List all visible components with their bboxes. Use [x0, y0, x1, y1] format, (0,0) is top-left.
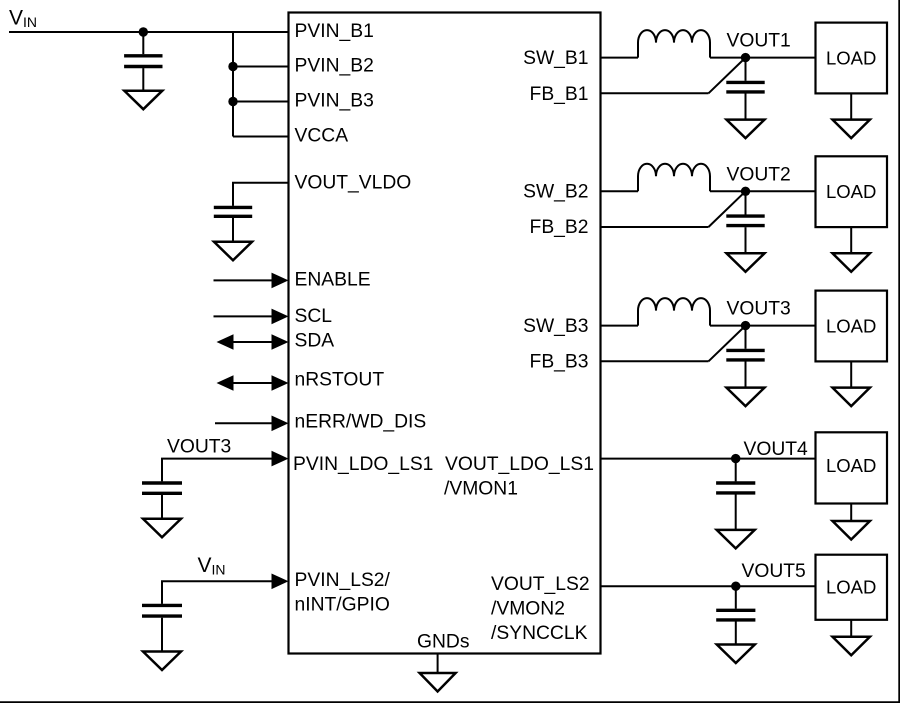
svg-text:VIN: VIN — [198, 554, 226, 578]
svg-text:VOUT3: VOUT3 — [167, 437, 231, 458]
feedback diagonal FB_B2 to VOUT2 — [709, 191, 746, 227]
capacitor C3 on VOUT3 — [142, 483, 182, 519]
svg-text:LOAD: LOAD — [826, 577, 876, 598]
wire PVIN_B3 — [233, 101, 289, 103]
wire SW_B2 — [601, 190, 639, 192]
inductor L1 — [638, 30, 710, 58]
junction PVIN_B2 branch — [228, 62, 237, 71]
junction VOUT3 — [741, 321, 750, 330]
wire FB_B2 — [601, 226, 709, 228]
junction VOUT4 — [731, 454, 740, 463]
svg-text:VOUT4: VOUT4 — [744, 439, 809, 460]
ground (below LOAD4) — [833, 521, 870, 540]
signal arrow nRSTOUT (bidirectional) — [217, 375, 289, 391]
wire GNDs to ground — [437, 654, 439, 674]
capacitor C5 on VOUT4 — [716, 459, 755, 530]
wire VIN branch to PVIN_B2/B3/VCCA — [232, 32, 234, 137]
wire LOAD1 to ground — [850, 93, 852, 119]
junction VIN / input capacitor — [139, 27, 148, 36]
svg-text:VIN: VIN — [9, 7, 37, 30]
junction PVIN_B3 branch — [228, 97, 237, 106]
wire L2 to VOUT2 node — [710, 190, 816, 192]
inductor L2 — [638, 164, 710, 192]
capacitor C6 on VOUT5 — [716, 586, 755, 644]
ground (below LOAD3) — [833, 388, 870, 407]
svg-text:SCL: SCL — [295, 306, 333, 327]
svg-text:/VMON1: /VMON1 — [444, 478, 518, 499]
wire VOUT_LS2 to LOAD5 — [601, 585, 816, 587]
capacitor C4 on PVIN_LS2 input — [142, 605, 182, 651]
wire/arrow VIN into PVIN_LS2 — [162, 574, 289, 604]
svg-text:GNDs: GNDs — [417, 632, 470, 653]
wire LOAD3 to ground — [850, 361, 852, 387]
wire VIN input rail — [9, 31, 289, 33]
capacitor C2 VOUT_VLDO bypass — [214, 207, 252, 241]
load block LOAD2 — [816, 156, 888, 227]
feedback diagonal FB_B1 to VOUT1 — [709, 58, 746, 94]
ground (below LOAD1) — [833, 120, 870, 139]
capacitor C_out1 on VOUT1 — [726, 58, 764, 120]
junction VOUT1 — [741, 53, 750, 62]
wire SW_B3 — [601, 325, 639, 327]
svg-text:LOAD: LOAD — [826, 455, 876, 476]
svg-text:LOAD: LOAD — [826, 47, 876, 68]
svg-text:nERR/WD_DIS: nERR/WD_DIS — [295, 411, 427, 432]
ground (GNDs) — [420, 673, 456, 692]
pin label PVIN_LS2/nINT/GPIO — [295, 570, 391, 616]
svg-text:VOUT1: VOUT1 — [727, 31, 791, 52]
junction VOUT5 — [731, 582, 740, 591]
svg-text:FB_B3: FB_B3 — [530, 352, 589, 373]
signal arrow nERR/WD_DIS (input) — [215, 416, 289, 432]
inductor L3 — [638, 298, 710, 326]
svg-text:SW_B1: SW_B1 — [523, 48, 588, 69]
ground (below C5) — [717, 530, 755, 549]
ground (below C_out3) — [727, 388, 765, 407]
wire LOAD5 to ground — [850, 620, 852, 637]
svg-text:ENABLE: ENABLE — [295, 269, 371, 290]
ground (below C_out1) — [727, 120, 765, 139]
wire VOUT_LDO_LS1 to LOAD4 — [601, 458, 816, 460]
svg-text:SDA: SDA — [295, 331, 335, 352]
wire L1 to VOUT1 node — [710, 57, 816, 59]
wire LOAD4 to ground — [850, 504, 852, 522]
load block LOAD4 — [816, 432, 888, 503]
ground (below C_out2) — [727, 253, 765, 271]
capacitor C1 VIN input bypass — [124, 32, 162, 91]
ground (below C1) — [124, 91, 162, 110]
svg-text:VCCA: VCCA — [295, 125, 349, 146]
signal arrow SCL (input) — [214, 309, 289, 325]
wire FB_B3 — [601, 360, 709, 362]
svg-text:PVIN_B3: PVIN_B3 — [295, 91, 374, 112]
svg-text:SW_B3: SW_B3 — [523, 316, 588, 337]
capacitor C_out3 on VOUT3 — [726, 326, 764, 388]
svg-text:nINT/GPIO: nINT/GPIO — [295, 595, 390, 616]
IC U1 PMIC body — [289, 13, 601, 654]
ground (below LOAD5) — [833, 637, 870, 656]
ground (below C2) — [214, 242, 252, 260]
wire FB_B1 — [601, 92, 709, 94]
load block LOAD3 — [816, 291, 888, 362]
svg-text:PVIN_LDO_LS1: PVIN_LDO_LS1 — [293, 454, 433, 475]
load block LOAD1 — [816, 23, 888, 94]
svg-text:VOUT5: VOUT5 — [742, 561, 806, 582]
feedback diagonal FB_B3 to VOUT3 — [709, 326, 746, 362]
svg-text:SW_B2: SW_B2 — [523, 182, 588, 203]
svg-text:VOUT2: VOUT2 — [727, 164, 791, 185]
svg-text:nRSTOUT: nRSTOUT — [295, 370, 385, 391]
wire L3 to VOUT3 node — [710, 325, 816, 327]
wire LOAD2 to ground — [850, 227, 852, 253]
svg-text:VOUT3: VOUT3 — [727, 299, 791, 320]
svg-text:VOUT_LDO_LS1: VOUT_LDO_LS1 — [445, 454, 594, 475]
svg-text:FB_B2: FB_B2 — [530, 217, 589, 238]
signal arrow ENABLE (input) — [214, 273, 289, 289]
pin label VOUT_LS2/VMON2/SYNCCLK — [491, 574, 590, 644]
svg-text:PVIN_B2: PVIN_B2 — [295, 56, 374, 77]
load block LOAD5 — [816, 555, 888, 620]
svg-text:/VMON2: /VMON2 — [491, 598, 565, 619]
svg-text:PVIN_B1: PVIN_B1 — [295, 21, 374, 42]
wire SW_B1 — [601, 57, 639, 59]
svg-text:LOAD: LOAD — [826, 315, 876, 336]
pin label VOUT_LDO_LS1/VMON1 — [444, 454, 594, 500]
svg-text:PVIN_LS2/: PVIN_LS2/ — [295, 570, 391, 591]
wire/arrow VOUT3 into PVIN_LDO_LS1 — [162, 451, 289, 482]
junction VOUT2 — [741, 187, 750, 196]
svg-text:LOAD: LOAD — [826, 181, 876, 202]
ground (below C6) — [717, 645, 755, 664]
ground (below C3) — [143, 519, 181, 538]
ground (below LOAD2) — [833, 253, 870, 271]
wire VOUT_VLDO — [233, 183, 289, 206]
ground (below C4) — [143, 652, 181, 671]
svg-text:VOUT_VLDO: VOUT_VLDO — [295, 172, 412, 193]
svg-text:/SYNCCLK: /SYNCCLK — [491, 623, 588, 644]
wire VCCA — [233, 136, 289, 138]
svg-text:FB_B1: FB_B1 — [530, 84, 589, 105]
svg-text:VOUT_LS2: VOUT_LS2 — [491, 574, 590, 595]
capacitor C_out2 on VOUT2 — [726, 191, 764, 253]
wire PVIN_B2 — [233, 66, 289, 68]
signal arrow SDA (bidirectional) — [217, 334, 289, 350]
